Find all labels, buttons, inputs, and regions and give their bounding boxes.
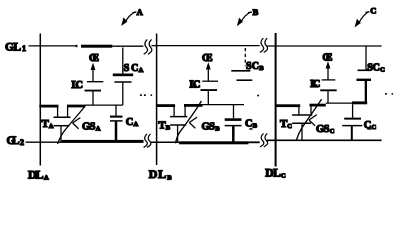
- speck near GL2 (cell C): [367, 128, 372, 130]
- speck near GL2 (cell B): [249, 128, 252, 130]
- svg-text:A: A: [44, 174, 49, 181]
- capacitor CB: [225, 105, 242, 143]
- svg-text:C: C: [287, 123, 292, 130]
- label GSC: [316, 124, 335, 135]
- liquid crystal capacitor LC (cell A): [85, 82, 104, 105]
- capacitor CC: [342, 104, 362, 140]
- transistor TB: [156, 104, 203, 143]
- break in GL1 (right): [260, 38, 268, 52]
- svg-text:LC: LC: [72, 80, 84, 91]
- label TA: [42, 118, 54, 130]
- svg-text:C: C: [245, 119, 253, 130]
- wire pixel node B: [203, 104, 245, 106]
- gate line GL1: [29, 45, 382, 48]
- svg-text:B: B: [253, 123, 258, 130]
- break in GL2 (left): [144, 134, 151, 148]
- svg-text:A: A: [49, 123, 54, 130]
- svg-text:C: C: [330, 128, 335, 135]
- svg-text:CE: CE: [322, 52, 332, 63]
- svg-text:B: B: [259, 65, 264, 72]
- data line DLA: [39, 34, 41, 166]
- break in GL2 (right): [260, 133, 268, 146]
- transistor TA: [39, 105, 85, 143]
- svg-text:C: C: [370, 5, 376, 15]
- break in GL1 (left): [144, 39, 152, 54]
- svg-text:DL: DL: [265, 168, 281, 180]
- label GL1: [5, 41, 26, 53]
- svg-text:CE: CE: [89, 53, 99, 64]
- label GSA: [82, 122, 101, 133]
- storage capacitor SCA: [113, 48, 133, 106]
- svg-text:GL: GL: [5, 41, 21, 53]
- label CB: [245, 119, 258, 130]
- svg-text:CE: CE: [202, 53, 213, 64]
- arrow GSC: [297, 99, 322, 140]
- data line DLB: [156, 34, 158, 166]
- wire pixel node C: [326, 102, 353, 104]
- capacitor CA: [110, 105, 123, 142]
- svg-text:SC: SC: [246, 61, 259, 72]
- svg-text:GL: GL: [7, 135, 20, 147]
- svg-text:GS: GS: [82, 122, 96, 133]
- svg-text:B: B: [215, 125, 220, 132]
- svg-text:A: A: [137, 7, 144, 17]
- label SCB: [246, 61, 264, 72]
- svg-text:B: B: [166, 124, 171, 131]
- svg-text:C: C: [372, 124, 377, 131]
- svg-text:C: C: [380, 66, 385, 73]
- svg-text:SC: SC: [367, 62, 380, 73]
- label CA: [126, 117, 139, 128]
- storage capacitor SCB: [231, 48, 252, 80]
- svg-text:B: B: [167, 174, 172, 181]
- svg-text:C: C: [126, 117, 134, 128]
- liquid crystal capacitor LC (cell C): [320, 80, 337, 103]
- label GSB: [202, 121, 221, 132]
- label DLC: [265, 168, 286, 180]
- svg-text:GS: GS: [202, 121, 216, 132]
- gate line GL2: [26, 140, 382, 144]
- label TC: [280, 118, 292, 130]
- label SCA: [124, 63, 144, 74]
- svg-text:A: A: [139, 67, 144, 74]
- svg-text:DL: DL: [149, 167, 167, 181]
- label GL2: [7, 135, 25, 147]
- svg-text:SC: SC: [124, 63, 139, 74]
- arrow GSB: [176, 101, 202, 143]
- label CC: [364, 120, 377, 131]
- svg-text:1: 1: [22, 44, 26, 53]
- pointer arrow A: [121, 12, 136, 26]
- ellipsis dots (right of cell C): [385, 93, 393, 95]
- pointer arrow B: [237, 12, 252, 26]
- arrow GSA: [58, 107, 85, 145]
- label SCC: [367, 62, 385, 73]
- svg-text:C: C: [281, 173, 286, 180]
- wire pixel node A: [86, 104, 123, 106]
- wire pixel node C thick end: [352, 101, 367, 104]
- svg-text:B: B: [253, 7, 259, 17]
- ellipsis dots (right of cell A): [140, 94, 152, 96]
- svg-text:A: A: [134, 121, 139, 128]
- label DLB: [149, 167, 173, 181]
- label DLA: [28, 167, 49, 181]
- common electrode arrow CE (cell B): [206, 62, 211, 81]
- svg-text:DL: DL: [28, 167, 44, 181]
- label TB: [158, 119, 170, 131]
- svg-text:GS: GS: [316, 124, 330, 135]
- svg-text:LC: LC: [190, 80, 201, 91]
- pointer arrow C: [355, 12, 370, 28]
- storage capacitor SCC: [357, 47, 372, 104]
- transistor TC: [275, 104, 326, 141]
- liquid crystal capacitor LC (cell B): [201, 81, 219, 104]
- common electrode arrow CE (cell A): [91, 63, 96, 82]
- common electrode arrow CE (cell C): [326, 61, 331, 80]
- svg-text:LC: LC: [310, 79, 320, 90]
- svg-text:A: A: [96, 126, 101, 133]
- svg-text:2: 2: [20, 138, 24, 147]
- data line DLC: [275, 33, 277, 167]
- ellipsis dot (right of cell B): [257, 95, 259, 97]
